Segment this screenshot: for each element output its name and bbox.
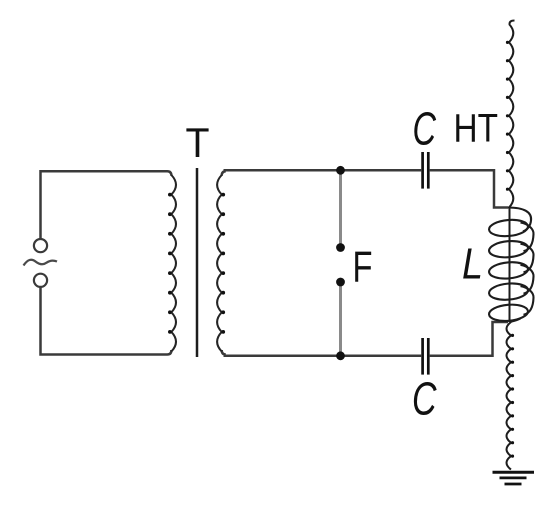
svg-text:T: T <box>186 119 210 166</box>
svg-text:C: C <box>412 373 437 425</box>
svg-text:C: C <box>413 103 437 155</box>
svg-text:F: F <box>353 243 373 292</box>
svg-text:L: L <box>462 240 483 289</box>
svg-text:HT: HT <box>454 107 499 151</box>
